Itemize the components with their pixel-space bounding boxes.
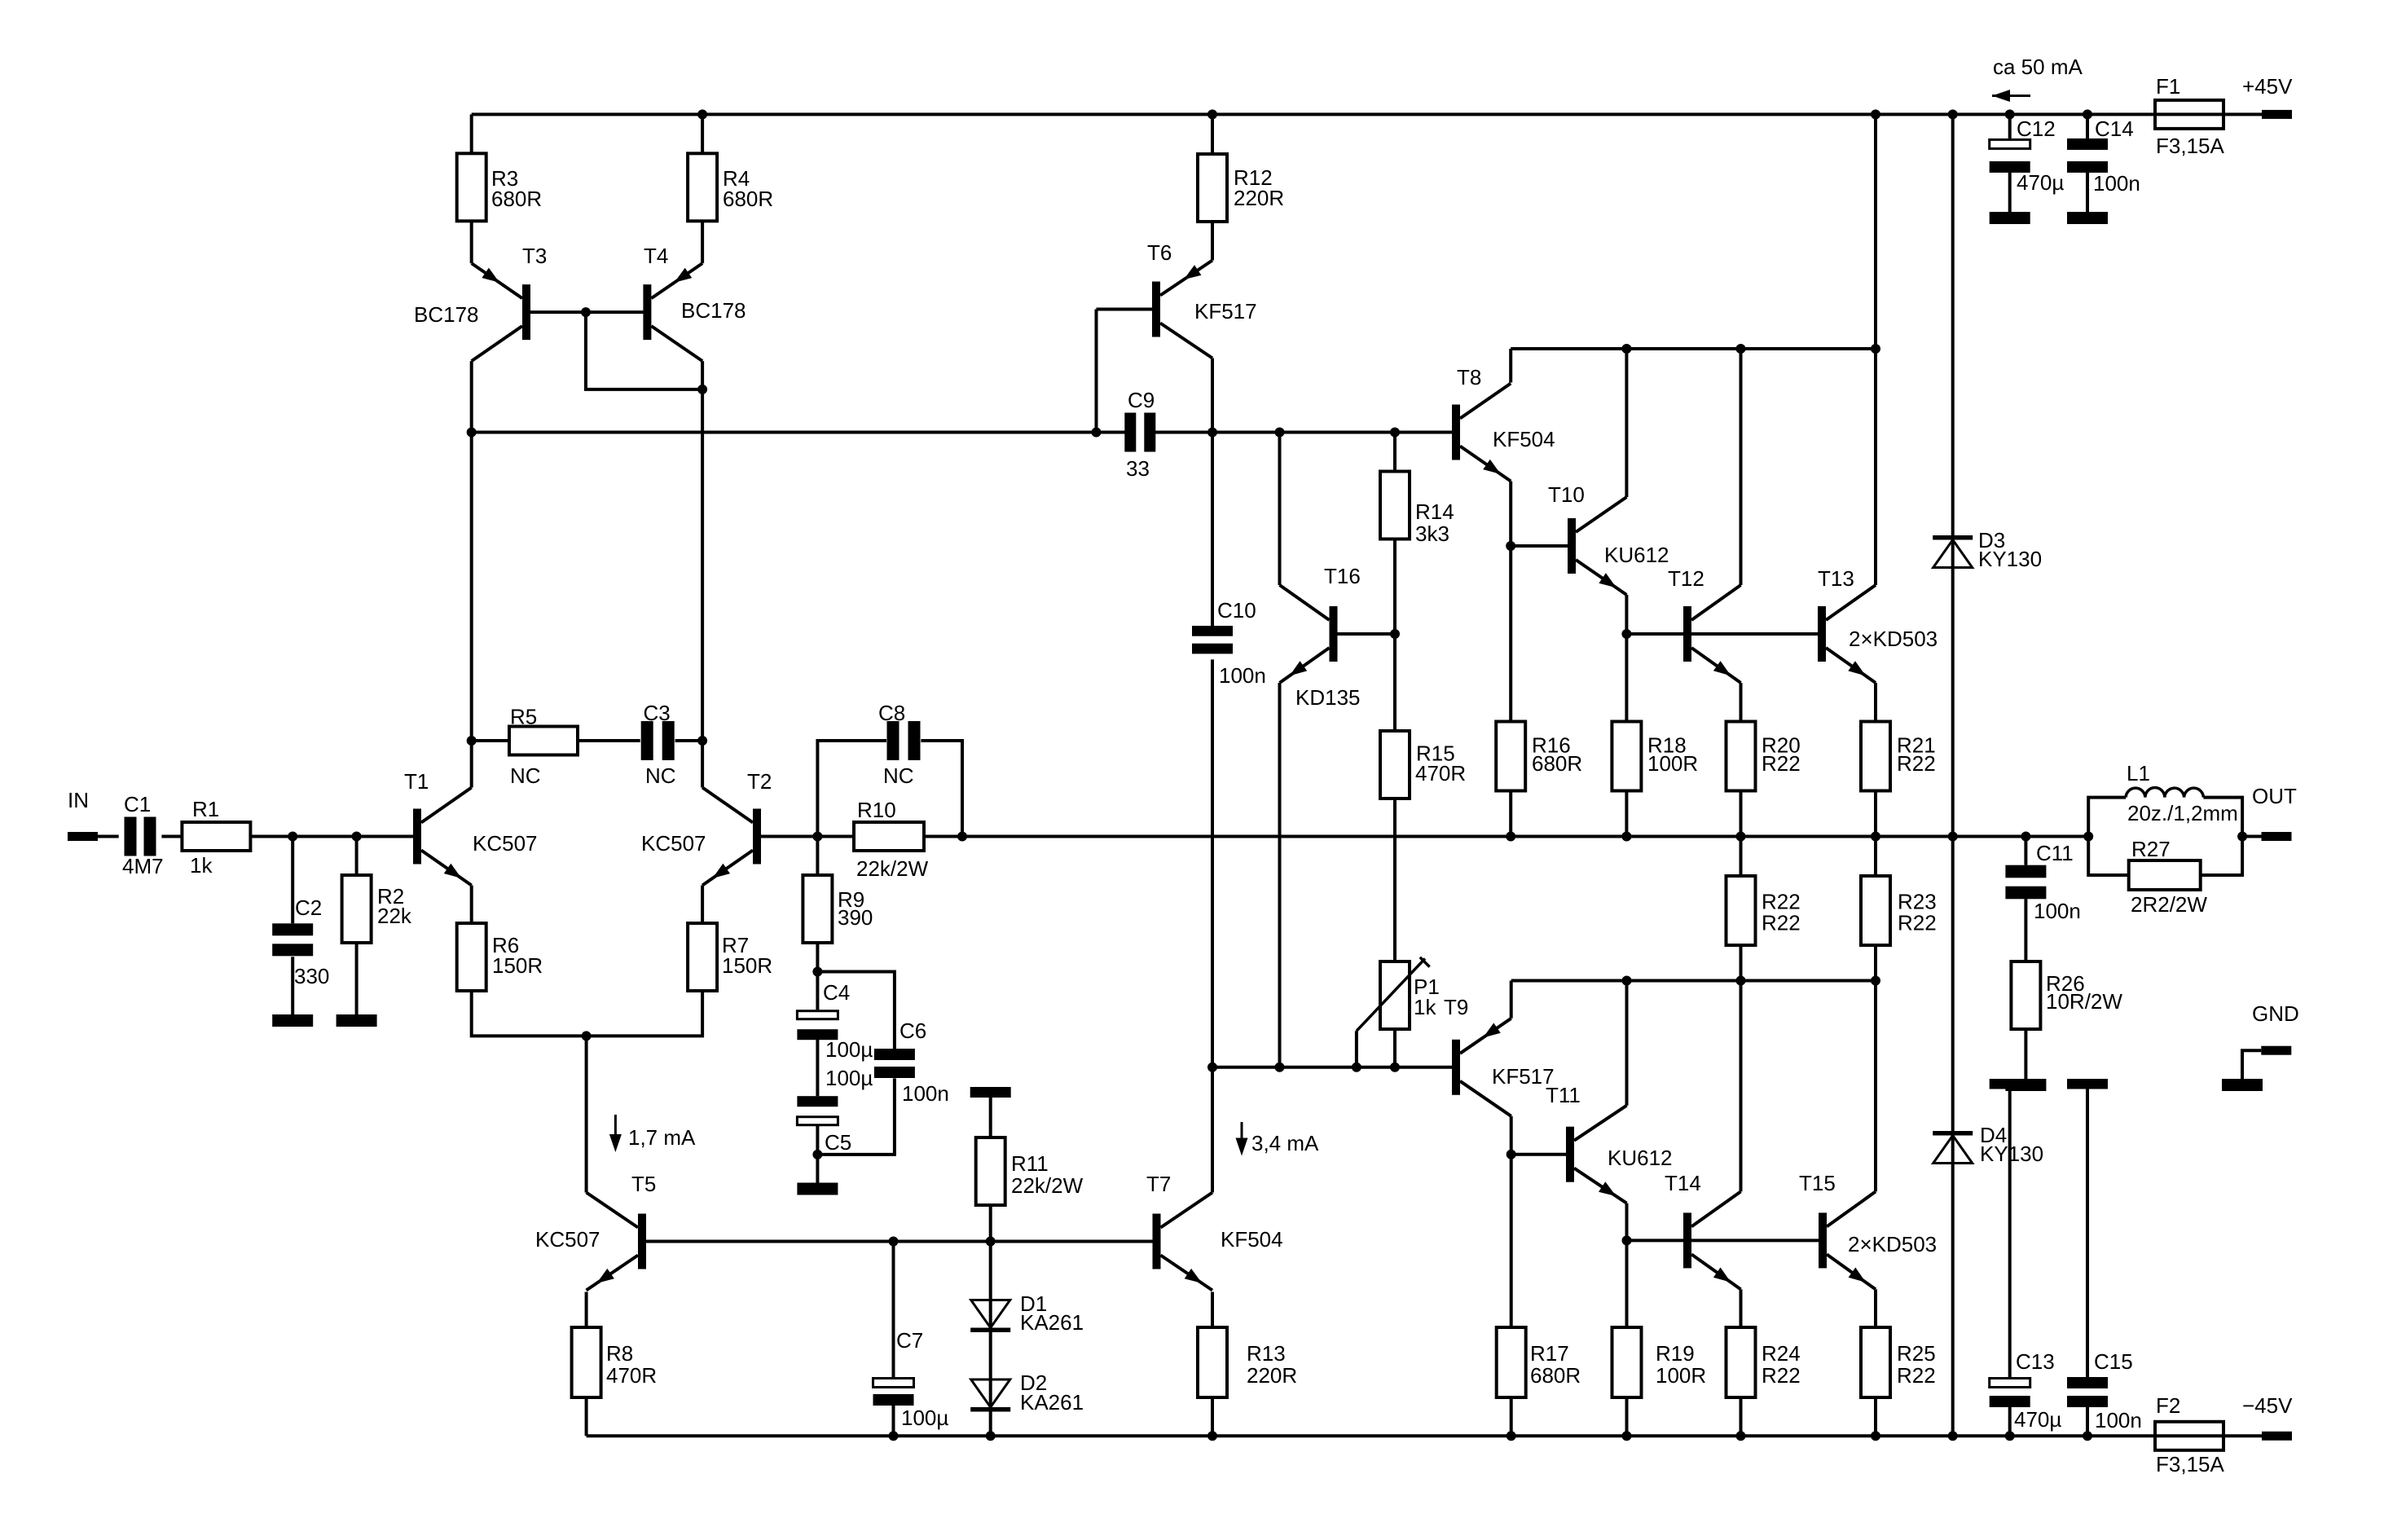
junction: R10 right / C8 — [957, 832, 967, 842]
svg-text:T9: T9 — [1444, 995, 1468, 1019]
junction: bottom rail C7 — [889, 1431, 899, 1441]
wire: R4 to T4 emitter corner — [701, 221, 704, 263]
resistor R27 — [2129, 837, 2208, 917]
ground (C14) — [2067, 212, 2108, 224]
wire: C11 to R26 — [2024, 899, 2027, 961]
wire: -45V bottom rail — [587, 1434, 2262, 1437]
svg-text:C11: C11 — [2036, 841, 2074, 865]
svg-text:2R2/2W: 2R2/2W — [2131, 892, 2207, 917]
wire: R24 to bottom rail — [1740, 1394, 1743, 1436]
capacitor C14 — [2067, 117, 2140, 196]
junction: T6 base on C9 line — [1092, 428, 1102, 438]
wire: T4 collector column down to T2 collector — [701, 361, 704, 787]
ground (R26) — [2005, 1079, 2046, 1091]
ground (R2) — [336, 1014, 377, 1027]
svg-text:R1: R1 — [192, 797, 219, 821]
junction: C10 column on C9 line — [1207, 428, 1217, 438]
svg-text:NC: NC — [645, 763, 676, 788]
svg-text:IN: IN — [68, 788, 89, 812]
capacitor C12 — [1990, 117, 2065, 195]
capacitor C6 — [874, 1019, 949, 1106]
wire: IN to C1 — [98, 835, 119, 838]
svg-text:T2: T2 — [747, 769, 772, 794]
resistor R6 — [457, 923, 543, 991]
wire: R11 ground lead — [989, 1098, 992, 1137]
transistor T15 — [1799, 1171, 1937, 1289]
svg-text:R19: R19 — [1656, 1341, 1695, 1366]
svg-text:KC507: KC507 — [535, 1227, 600, 1252]
junction: bottom rail R19 — [1622, 1431, 1632, 1441]
svg-text:150R: 150R — [722, 953, 772, 978]
transistor T4 — [643, 244, 746, 361]
svg-text:C2: C2 — [295, 895, 322, 920]
resistor R11 — [976, 1137, 1084, 1205]
capacitor C3 — [641, 701, 676, 788]
wire: R23 to lower bus — [1874, 944, 1877, 981]
wire: R25 to bottom rail — [1874, 1394, 1877, 1436]
wire: P1 wiper lead — [1355, 1031, 1358, 1067]
diode D2 — [970, 1371, 1084, 1415]
resistor R7 — [688, 923, 772, 991]
junction: R16 main line — [1506, 832, 1515, 842]
wire: T9 collector to T11 base node — [1510, 1116, 1513, 1155]
transistor T7 — [1146, 1172, 1283, 1291]
junction: C5/C6 ground node — [812, 1150, 822, 1159]
wire: R27 left lead — [2088, 837, 2129, 876]
wire: C13 from ground bar — [2008, 1089, 2012, 1377]
svg-text:KC507: KC507 — [473, 831, 538, 856]
junction: T11 emitter / T14 base / R19 — [1622, 1235, 1632, 1245]
svg-text:1,7 mA: 1,7 mA — [628, 1125, 696, 1150]
svg-text:R22: R22 — [1898, 911, 1937, 935]
junction: bottom rail R17 — [1506, 1431, 1516, 1441]
svg-text:C4: C4 — [823, 980, 850, 1005]
junction: C9 line left — [467, 428, 477, 438]
svg-text:R8: R8 — [606, 1341, 633, 1366]
svg-text:150R: 150R — [492, 953, 543, 978]
svg-text:4M7: 4M7 — [122, 854, 164, 878]
annotation: ca 50 mA arrow — [1992, 55, 2083, 102]
svg-text:100n: 100n — [902, 1081, 949, 1106]
svg-text:R14: R14 — [1415, 499, 1454, 524]
terminal -45V — [2242, 1393, 2293, 1441]
wire: D3/D4 column rail to rail — [1951, 114, 1955, 1436]
svg-text:22k/2W: 22k/2W — [856, 856, 929, 881]
terminal IN — [68, 788, 98, 841]
terminal OUT — [2252, 784, 2297, 841]
svg-text:T8: T8 — [1457, 365, 1481, 389]
wire: C5 to ground node — [816, 1125, 819, 1183]
svg-text:1k: 1k — [1414, 995, 1436, 1019]
svg-text:KF504: KF504 — [1493, 427, 1555, 451]
junction: top rail C14 — [2083, 109, 2092, 119]
wire: R15 column — [1393, 634, 1397, 731]
junction: L1/R27 left node — [2083, 832, 2093, 842]
svg-text:T12: T12 — [1668, 566, 1704, 591]
wire: R5 line left — [472, 739, 509, 742]
svg-text:KD135: KD135 — [1295, 685, 1361, 710]
svg-text:470R: 470R — [1415, 761, 1466, 785]
svg-text:680R: 680R — [1532, 751, 1582, 776]
svg-text:C15: C15 — [2094, 1349, 2133, 1374]
svg-text:680R: 680R — [491, 187, 542, 211]
wire: C6 top branch — [817, 972, 895, 1049]
svg-text:T1: T1 — [404, 769, 429, 794]
wire: R22 to lower bus — [1740, 944, 1743, 981]
svg-text:100n: 100n — [1219, 663, 1266, 688]
ground (above R11) — [970, 1087, 1011, 1098]
svg-text:R22: R22 — [1897, 1363, 1936, 1388]
wire: T3 collector column down to T1 collector — [470, 361, 473, 787]
capacitor C15 — [2067, 1349, 2142, 1432]
wire: C4 lead — [816, 972, 819, 1010]
svg-text:10R/2W: 10R/2W — [2046, 989, 2122, 1014]
svg-text:R11: R11 — [1011, 1151, 1049, 1176]
wire: T14 collector riser — [1740, 981, 1743, 1192]
wire: T6 collector to C10 — [1211, 359, 1214, 627]
svg-text:22k/2W: 22k/2W — [1011, 1173, 1084, 1198]
wire: R23 from main line — [1874, 837, 1877, 877]
resistor R22 — [1726, 876, 1801, 945]
resistor R10 — [854, 798, 929, 881]
svg-text:330: 330 — [294, 964, 329, 988]
capacitor C10 — [1192, 598, 1266, 688]
wire: T10 base line — [1511, 544, 1568, 548]
wire: T15 emitter to R25 — [1874, 1289, 1877, 1327]
wire: C3 to T4 column — [675, 739, 703, 742]
svg-text:R24: R24 — [1762, 1341, 1801, 1366]
junction: bottom rail C13 — [2005, 1431, 2015, 1441]
junction: bus / T12 collector — [1736, 344, 1746, 354]
svg-text:2×KD503: 2×KD503 — [1849, 627, 1938, 651]
wire: R17 column — [1510, 1155, 1513, 1327]
svg-text:R17: R17 — [1530, 1341, 1569, 1366]
fuse F1 — [2155, 74, 2224, 158]
transistor T13 — [1818, 566, 1938, 683]
wire: T16 collector riser — [1278, 433, 1282, 586]
annotation: 3,4 mA arrow — [1236, 1122, 1320, 1156]
junction: input node C2 — [288, 832, 297, 842]
inductor L1 — [2126, 761, 2238, 825]
wire: R17 to bottom rail — [1510, 1394, 1513, 1436]
resistor R18 — [1612, 722, 1698, 791]
wire: GND terminal lead — [2242, 1050, 2261, 1079]
wire: C11 from main line — [2024, 837, 2027, 865]
wire: C2 to ground — [291, 957, 294, 1014]
wire: lower bus — [1511, 979, 1876, 983]
wire: T9 emitter riser — [1510, 981, 1513, 1019]
wire: R11 to base line — [989, 1205, 992, 1242]
svg-text:T10: T10 — [1548, 482, 1585, 507]
wire: R19 to bottom rail — [1625, 1394, 1629, 1436]
junction: T9 bus / T16 emitter — [1275, 1063, 1285, 1072]
wire: T7 emitter to R13 — [1211, 1292, 1214, 1328]
wire: R22 from main line — [1740, 837, 1743, 876]
wire: C6 bottom branch — [817, 1078, 895, 1155]
junction: R14 on C9 line — [1390, 428, 1400, 438]
svg-text:−45V: −45V — [2242, 1393, 2293, 1418]
wire: R9 to C4 node — [816, 943, 819, 972]
transistor T3 — [414, 244, 547, 361]
junction: R18 main line — [1621, 832, 1631, 842]
svg-text:22k: 22k — [377, 904, 412, 928]
junction: top rail D3 — [1948, 109, 1958, 119]
junction: bottom rail R24 — [1736, 1431, 1746, 1441]
svg-text:C10: C10 — [1217, 598, 1256, 623]
wire: C9 line left — [472, 431, 1125, 434]
wire: T5 base line — [645, 1240, 1153, 1243]
junction: R9/C4/C6 node — [812, 967, 822, 977]
wire: T9 base bus — [1212, 1066, 1454, 1069]
resistor R1 — [182, 797, 250, 878]
wire: C8 right riser — [921, 741, 962, 837]
junction: T3/T4 base tie — [581, 307, 591, 317]
wire: T11 base line — [1511, 1153, 1566, 1156]
wire: T8 emitter column to R16 — [1509, 482, 1512, 722]
junction: T5 base / C7 — [889, 1237, 899, 1247]
junction: T9 bus / P1 bottom — [1390, 1063, 1400, 1072]
svg-text:1k: 1k — [190, 853, 213, 878]
transistor T11 — [1546, 1083, 1673, 1203]
svg-text:390: 390 — [838, 905, 873, 930]
svg-text:220R: 220R — [1247, 1363, 1297, 1388]
capacitor C1 — [122, 792, 164, 878]
wire: C7 column — [892, 1242, 895, 1378]
ground (C15 top) — [2067, 1079, 2108, 1089]
wire: T1 emitter to R6 — [470, 886, 473, 924]
svg-text:470µ: 470µ — [2014, 1407, 2061, 1432]
transistor T10 — [1548, 482, 1669, 595]
wire: C10 to T9 bus to T7 collector — [1211, 659, 1214, 1192]
svg-text:220R: 220R — [1234, 186, 1284, 210]
svg-text:100n: 100n — [2095, 1408, 2142, 1432]
junction: T5 base / R11 / D1 — [986, 1237, 996, 1247]
resistor R19 — [1612, 1327, 1707, 1397]
svg-text:F1: F1 — [2156, 74, 2180, 99]
transistor T12 — [1668, 566, 1741, 683]
svg-text:GND: GND — [2252, 1001, 2299, 1026]
svg-text:C13: C13 — [2016, 1349, 2055, 1374]
junction: top rail T13 column — [1871, 109, 1880, 119]
resistor R3 — [457, 153, 542, 221]
svg-text:KF504: KF504 — [1221, 1227, 1283, 1252]
wire: T11 collector riser — [1625, 981, 1629, 1106]
terminal GND — [2252, 1001, 2299, 1055]
transistor T8 — [1452, 365, 1555, 482]
wire: T14/T15 base line — [1627, 1239, 1819, 1242]
svg-text:R10: R10 — [857, 798, 896, 822]
junction: R21/R23 main line — [1871, 832, 1880, 842]
junction: lower bus T15/R23 — [1871, 976, 1880, 986]
potentiometer P1 — [1357, 957, 1440, 1032]
svg-text:T6: T6 — [1147, 240, 1172, 265]
svg-text:C8: C8 — [878, 701, 905, 725]
wire: R3 to T3 emitter corner — [470, 221, 473, 263]
wire: R12 to T6 emitter corner — [1211, 222, 1214, 261]
svg-text:R22: R22 — [1762, 751, 1801, 776]
svg-text:L1: L1 — [2127, 761, 2150, 785]
wire: T16 base line — [1338, 632, 1396, 636]
resistor R25 — [1861, 1327, 1936, 1397]
svg-text:KA261: KA261 — [1020, 1310, 1084, 1335]
terminal +45V — [2242, 74, 2293, 119]
junction: lower bus T14/R22 — [1736, 976, 1746, 986]
svg-text:C9: C9 — [1128, 388, 1155, 412]
diode D4 — [1933, 1123, 2043, 1166]
wire: T14 emitter to R24 — [1740, 1289, 1743, 1327]
transistor T5 — [535, 1172, 656, 1291]
wire: R21 to main line — [1874, 790, 1877, 837]
capacitor C2 — [272, 895, 329, 988]
junction: bottom rail R13 — [1207, 1431, 1217, 1441]
wire: R9 column — [816, 837, 819, 876]
wire: C14 to ground — [2086, 173, 2089, 212]
wire: R2 column — [355, 837, 358, 876]
svg-text:KY130: KY130 — [1980, 1142, 2043, 1166]
wire: C13 to bottom rail — [2008, 1407, 2012, 1436]
svg-text:BC178: BC178 — [681, 298, 746, 323]
svg-text:100n: 100n — [2093, 171, 2140, 196]
wire: T11 emitter to T14 base node — [1625, 1203, 1629, 1241]
svg-text:C6: C6 — [900, 1019, 926, 1043]
wire: R2 to ground — [355, 943, 358, 1014]
wire: R20 to main line — [1740, 790, 1743, 837]
svg-text:C7: C7 — [896, 1328, 923, 1353]
transistor T6 — [1147, 240, 1257, 359]
svg-text:KU612: KU612 — [1608, 1146, 1673, 1170]
wire: T16 emitter column — [1278, 683, 1282, 1067]
junction: lower bus T11 — [1622, 976, 1632, 986]
wire: R5 to C3 — [578, 739, 640, 742]
svg-text:R22: R22 — [1762, 911, 1801, 935]
wire: C9 line to T8 base — [1155, 431, 1452, 434]
svg-text:100µ: 100µ — [901, 1406, 948, 1430]
svg-text:3,4 mA: 3,4 mA — [1251, 1131, 1319, 1155]
wire: R13 to bottom rail — [1211, 1395, 1214, 1436]
svg-text:100µ: 100µ — [825, 1066, 873, 1090]
svg-text:R25: R25 — [1897, 1341, 1936, 1366]
wire: output node to OUT terminal — [2242, 835, 2261, 838]
ground (C12) — [1990, 212, 2030, 224]
wire: T4 base-collector tie — [586, 312, 702, 389]
svg-text:T4: T4 — [644, 244, 668, 268]
wire: R4 column from rail to R4 — [701, 114, 704, 153]
wire: C12 lead from rail — [2008, 114, 2012, 139]
wire: R16 to main line — [1509, 790, 1512, 837]
svg-text:KU612: KU612 — [1604, 543, 1669, 567]
wire: base line through D1/D2 to bottom rail — [989, 1242, 992, 1437]
junction: diff pair tail — [582, 1031, 592, 1041]
svg-text:R22: R22 — [1762, 1363, 1801, 1388]
svg-text:2×KD503: 2×KD503 — [1848, 1232, 1937, 1256]
svg-text:R5: R5 — [510, 705, 537, 729]
svg-text:F3,15A: F3,15A — [2156, 134, 2224, 158]
wire: C8 left riser — [817, 741, 886, 837]
resistor R14 — [1380, 472, 1454, 547]
wire: T6 base riser — [1095, 310, 1098, 433]
resistor R26 — [2011, 961, 2122, 1029]
wire: T10 collector riser — [1625, 349, 1628, 497]
wire: R12 column from rail — [1211, 114, 1214, 154]
junction: T8 emitter / T10 base — [1506, 541, 1515, 551]
junction: T9 collector / T11 base / R17 — [1506, 1150, 1516, 1159]
wire: L1 left riser — [2088, 798, 2126, 837]
resistor R24 — [1726, 1327, 1801, 1397]
transistor T2 — [641, 769, 772, 886]
svg-text:KY130: KY130 — [1978, 547, 2042, 571]
svg-text:C1: C1 — [124, 792, 151, 816]
wire: R19 column — [1625, 1240, 1629, 1327]
junction: top rail C12 — [2005, 109, 2015, 119]
junction: C11 main line — [2021, 832, 2030, 842]
capacitor C5 — [797, 1096, 851, 1155]
svg-text:R13: R13 — [1247, 1341, 1286, 1366]
wire: T3/T4 base line — [530, 310, 643, 314]
wire: T15 collector riser — [1874, 981, 1877, 1192]
capacitor C4 — [797, 980, 873, 1090]
ground (GND terminal) — [2222, 1079, 2263, 1091]
transistor T9 — [1444, 995, 1555, 1116]
junction: R4 top rail — [697, 109, 707, 119]
wire: C14 lead from rail — [2086, 114, 2089, 139]
ground (C13 top) — [1990, 1079, 2030, 1089]
wire: R18 to main line — [1625, 790, 1628, 837]
junction: R12 top rail — [1207, 109, 1217, 119]
svg-text:NC: NC — [883, 763, 914, 788]
junction: T8 collector bus / T10 — [1621, 344, 1631, 354]
wire: L1 right lead — [2203, 798, 2242, 837]
wire: R7 to tail node — [587, 991, 703, 1036]
junction: D3/D4 main line — [1948, 832, 1958, 842]
junction: input node R2 — [352, 832, 362, 842]
wire: C4 to C5 — [816, 1039, 819, 1097]
diode D3 — [1933, 528, 2042, 571]
svg-text:T11: T11 — [1546, 1083, 1581, 1107]
wire: R14 to T16 base node — [1393, 539, 1397, 634]
svg-text:F3,15A: F3,15A — [2156, 1452, 2224, 1476]
diode D1 — [970, 1291, 1084, 1335]
svg-text:OUT: OUT — [2252, 784, 2297, 808]
junction: bus / T13 column — [1871, 344, 1880, 354]
svg-text:R22: R22 — [1897, 751, 1936, 776]
junction: bottom rail R25 — [1871, 1431, 1880, 1441]
resistor R21 — [1861, 722, 1936, 791]
svg-text:100R: 100R — [1647, 751, 1698, 776]
capacitor C8 — [878, 701, 921, 788]
svg-text:100R: 100R — [1656, 1363, 1706, 1388]
junction: C3 right — [697, 736, 707, 746]
svg-text:T16: T16 — [1324, 564, 1361, 588]
svg-text:20z./1,2mm: 20z./1,2mm — [2127, 801, 2238, 825]
resistor R12 — [1198, 154, 1284, 222]
svg-text:470R: 470R — [606, 1363, 657, 1388]
capacitor C9 — [1124, 388, 1155, 481]
transistor T1 — [404, 769, 538, 886]
junction: output node — [2237, 832, 2247, 842]
svg-text:C5: C5 — [825, 1130, 851, 1155]
resistor R9 — [803, 875, 873, 943]
wire: P1 to T9 base bus — [1393, 1029, 1397, 1067]
junction: R14/R15/T16 base — [1390, 629, 1400, 639]
svg-text:100n: 100n — [2034, 899, 2081, 923]
wire: C2 column — [291, 837, 294, 924]
resistor R16 — [1496, 722, 1582, 791]
wire: T12 emitter to R20 — [1740, 683, 1743, 722]
wire: upper collector bus — [1511, 347, 1876, 350]
wire: T12 collector riser — [1740, 349, 1743, 585]
wire: T10 emitter to R18 node — [1625, 595, 1628, 722]
capacitor C11 — [2005, 841, 2080, 923]
